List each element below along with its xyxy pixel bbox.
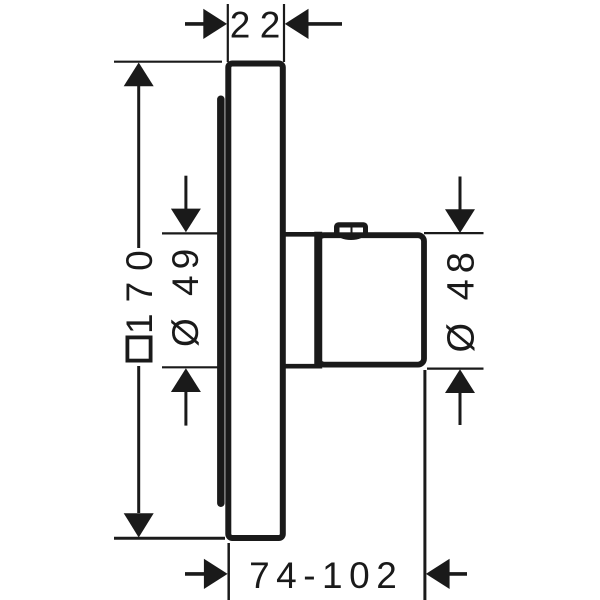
dimension Ø49: top extension line (162, 232, 219, 234)
dimension 170: top extension line (114, 61, 222, 63)
dimension 74-102: left extension line (227, 543, 230, 600)
sleeve top face (Ø49) (283, 232, 319, 237)
dimension 74-102: right tail line (449, 572, 467, 576)
dimension 170: square symbol (127, 337, 150, 360)
back mounting plate (thin slab behind escutcheon) (217, 96, 225, 508)
svg-text:170: 170 (119, 239, 160, 334)
dimension Ø49: upper line segment (184, 176, 187, 210)
dimension Ø49: bottom arrow (pointing up) (171, 368, 201, 392)
dimension 170: bottom extension line (114, 537, 225, 540)
sleeve bottom face (Ø49) (283, 364, 319, 369)
handle top notch (safety stop button) (334, 222, 368, 240)
dimension 74-102: left arrow (204, 559, 228, 589)
svg-text:74-102: 74-102 (249, 555, 403, 596)
dimension 22: left arrow (203, 9, 227, 39)
dimension 74-102: right arrow (426, 559, 450, 589)
dimension 22: right tail line (308, 22, 343, 26)
dimension 170: bottom arrow (124, 513, 154, 537)
dimension Ø48: upper line segment (459, 177, 462, 211)
dimension Ø49: text rotated (165, 243, 206, 347)
dimension 22: left extension line (227, 4, 229, 62)
dimension 170: text "170" rotated (119, 239, 160, 334)
dimension 74-102: left tail line (185, 572, 205, 576)
handle left face step line (314, 232, 322, 369)
dimension 170: upper line segment (137, 85, 140, 248)
dimension Ø48: top arrow (pointing down) (445, 209, 475, 233)
dimension 170: lower line segment (137, 366, 140, 513)
dimension 74-102: right extension line (423, 370, 426, 600)
dimension Ø49: lower line segment (184, 391, 187, 426)
dimension Ø48: text rotated (441, 246, 483, 352)
dimension Ø48: lower line segment (459, 392, 462, 425)
dimension Ø49: top arrow (pointing down) (171, 209, 201, 233)
dimension 22: right arrow (285, 9, 309, 39)
dimension 22: left tail line (185, 22, 205, 26)
dimension 22: right extension line (283, 4, 285, 62)
handle body (Ø48 cylinder) (318, 235, 424, 364)
dimension Ø48: bottom arrow (pointing up) (445, 369, 475, 393)
dimension Ø49: bottom extension line (162, 366, 219, 368)
dimension 74-102: text (249, 555, 403, 596)
svg-text:22: 22 (230, 5, 290, 46)
dimension 22: text (230, 5, 290, 46)
dimension Ø48: top extension line (424, 232, 484, 234)
svg-text:Ø 48: Ø 48 (441, 246, 483, 352)
escutcheon plate (side view rectangle) (228, 63, 282, 538)
svg-text:Ø 49: Ø 49 (165, 243, 206, 347)
dimension 170: top arrow (124, 63, 154, 87)
dimension Ø48: bottom extension line (427, 368, 484, 370)
